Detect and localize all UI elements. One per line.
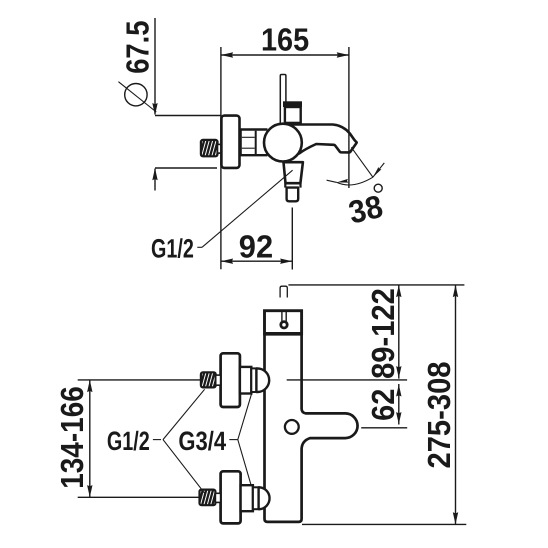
- svg-text:62: 62: [365, 389, 401, 421]
- svg-text:G1/2: G1/2: [151, 233, 194, 263]
- svg-text:89-122: 89-122: [365, 288, 401, 379]
- svg-text:92: 92: [239, 228, 273, 264]
- svg-text:165: 165: [261, 22, 309, 58]
- svg-text:G1/2: G1/2: [107, 426, 150, 456]
- svg-text:67.5: 67.5: [120, 21, 156, 74]
- svg-text:275-308: 275-308: [421, 362, 457, 469]
- svg-text:134-166: 134-166: [54, 386, 90, 489]
- svg-text:G3/4: G3/4: [178, 426, 226, 456]
